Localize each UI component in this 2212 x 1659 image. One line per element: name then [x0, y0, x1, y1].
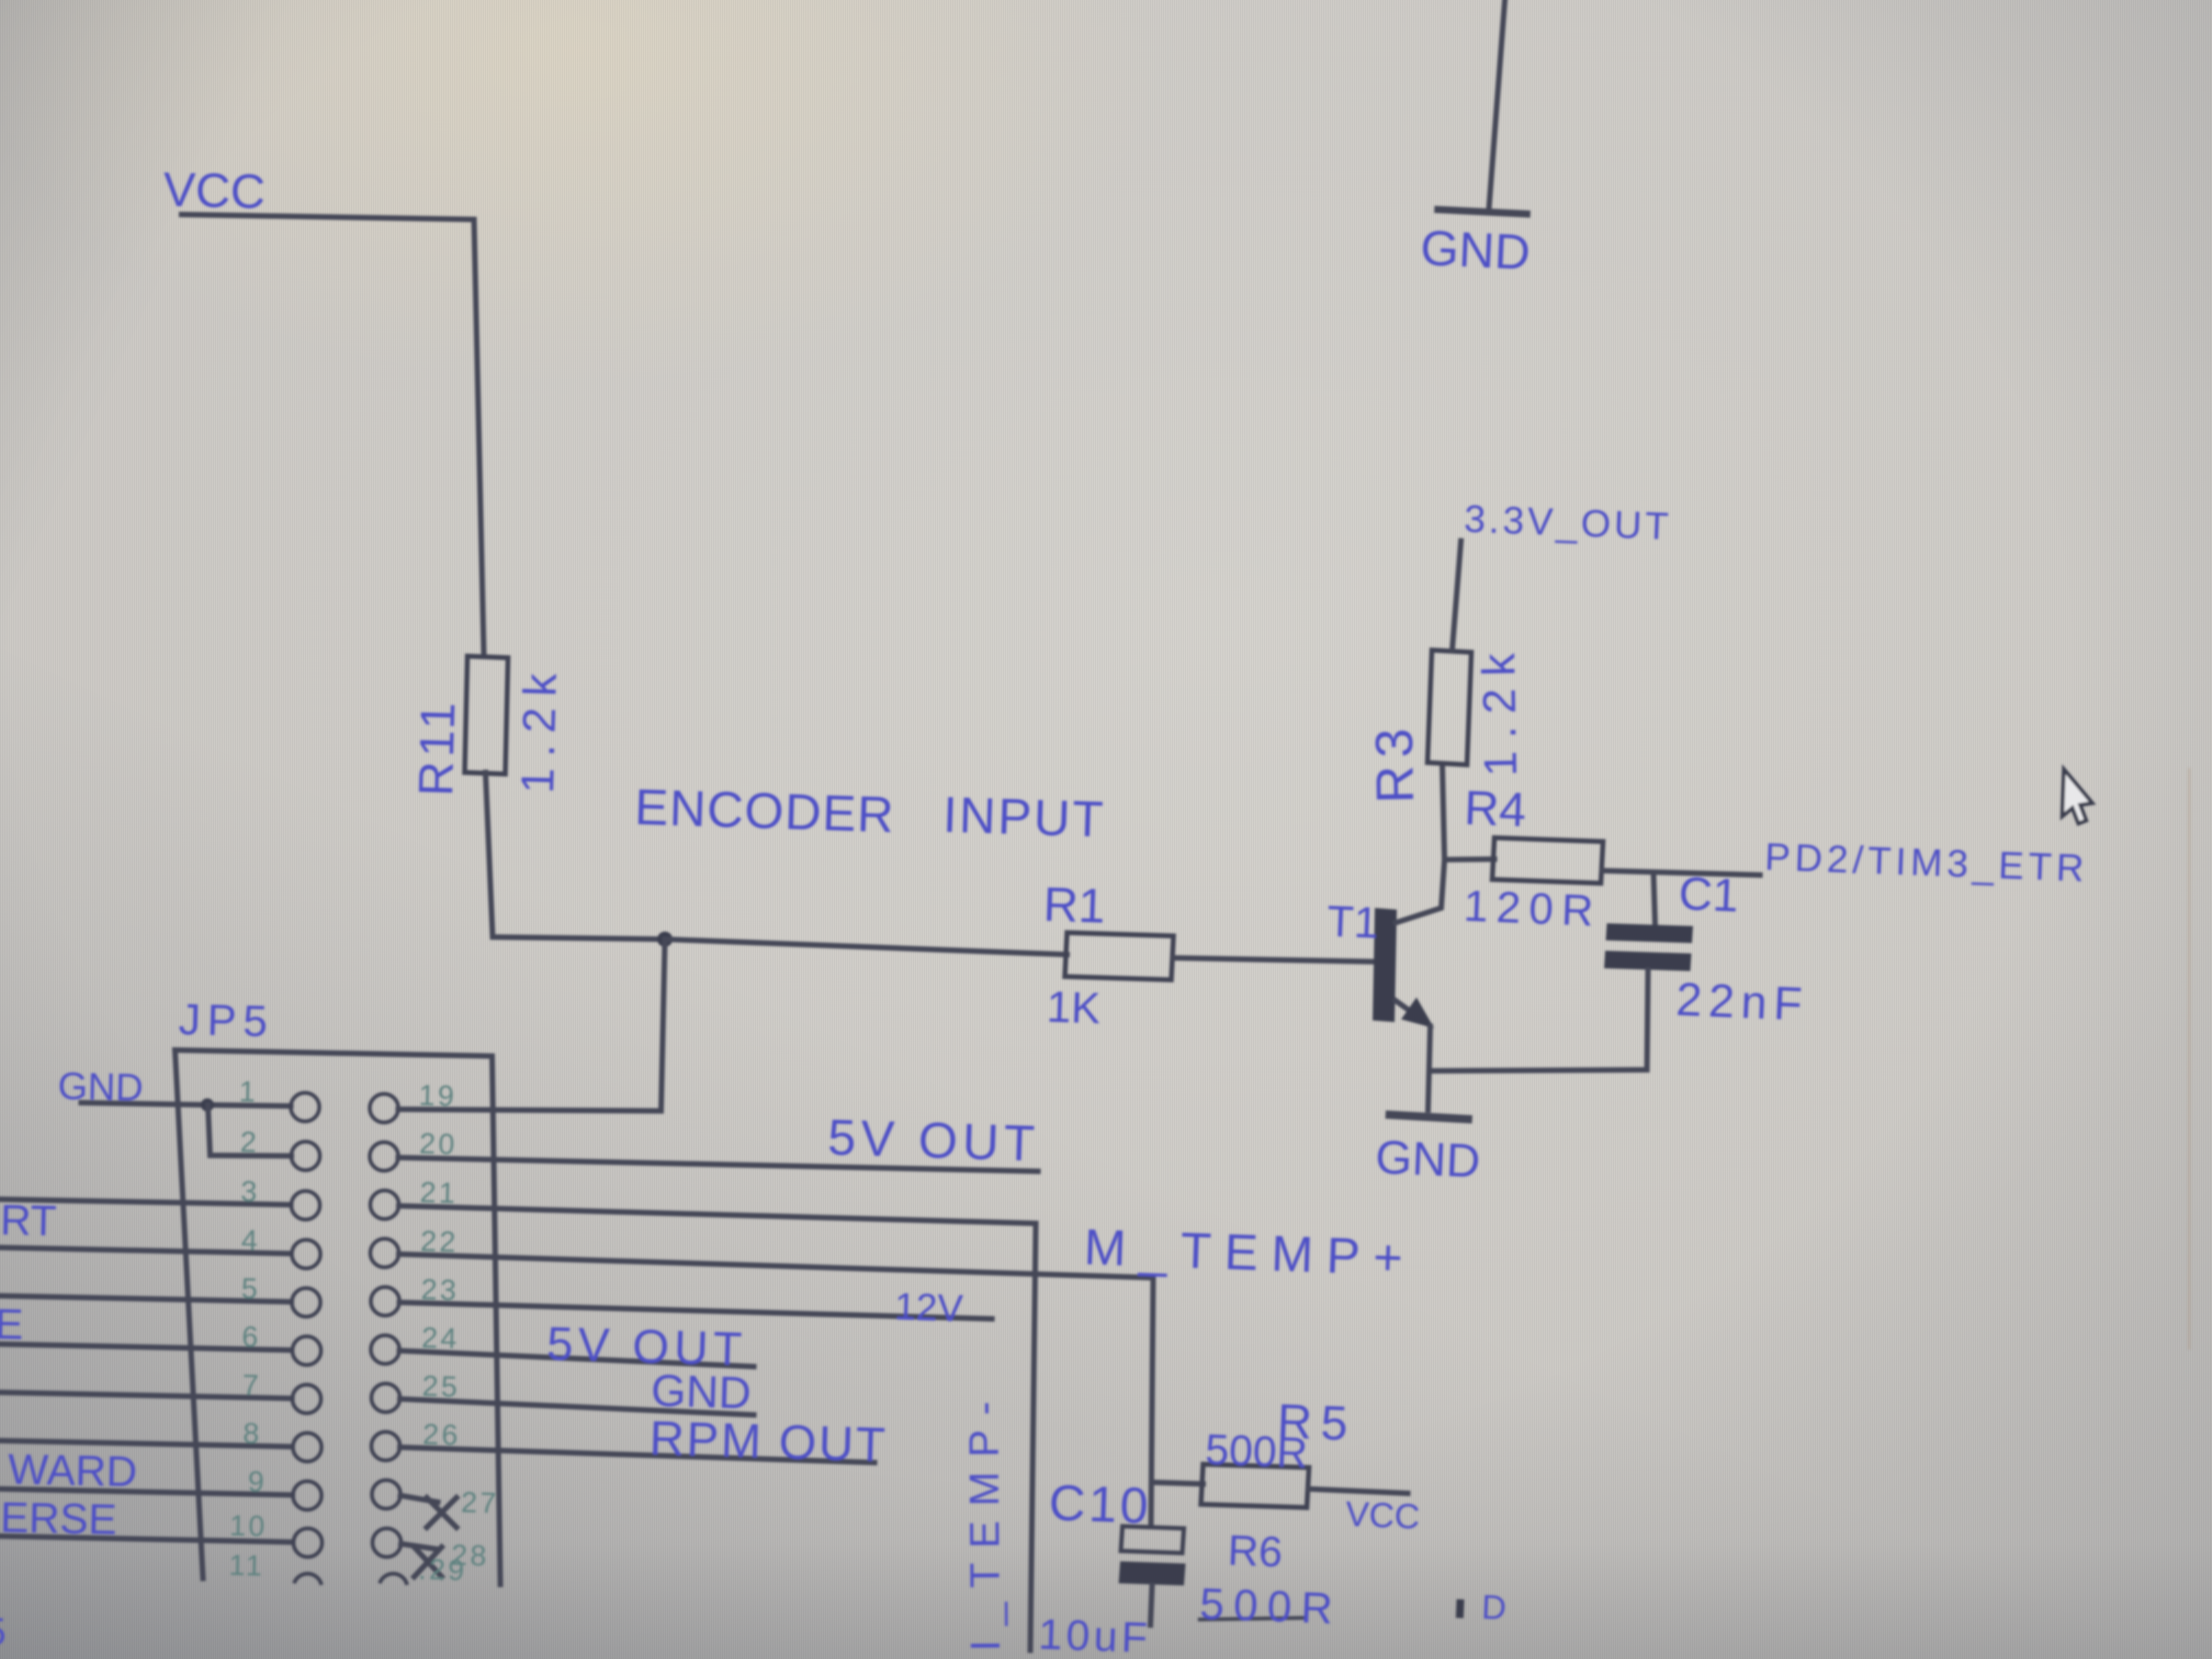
- svg-text:C10: C10: [1048, 1475, 1152, 1534]
- svg-text:RPM OUT: RPM OUT: [648, 1410, 888, 1472]
- svg-text:R4: R4: [1463, 780, 1527, 837]
- svg-text:VCC: VCC: [163, 162, 266, 219]
- svg-text:26: 26: [422, 1418, 461, 1452]
- svg-text:11: 11: [229, 1549, 265, 1582]
- svg-text:4: 4: [241, 1224, 261, 1257]
- svg-text:VCC: VCC: [1345, 1494, 1420, 1536]
- svg-text:9: 9: [247, 1465, 267, 1498]
- svg-text:6: 6: [241, 1321, 261, 1353]
- svg-text:R6: R6: [1227, 1526, 1283, 1576]
- svg-text:.29: .29: [418, 1553, 467, 1587]
- svg-text:M_TEMP+: M_TEMP+: [1083, 1219, 1417, 1286]
- svg-text:5: 5: [0, 1610, 6, 1653]
- svg-text:T1: T1: [1326, 896, 1379, 947]
- svg-text:23: 23: [421, 1273, 460, 1307]
- svg-text:5: 5: [241, 1272, 261, 1305]
- svg-text:GND: GND: [58, 1064, 144, 1109]
- svg-text:PD2/TIM3_ETR: PD2/TIM3_ETR: [1764, 835, 2089, 890]
- svg-text:INPUT: INPUT: [942, 787, 1106, 848]
- svg-text:WARD: WARD: [8, 1444, 138, 1496]
- svg-text:7: 7: [242, 1369, 262, 1402]
- svg-text:24: 24: [421, 1322, 460, 1355]
- svg-text:D: D: [1481, 1588, 1507, 1627]
- svg-text:25: 25: [422, 1370, 461, 1403]
- svg-text:3.3V_OUT: 3.3V_OUT: [1463, 497, 1672, 548]
- svg-text:8: 8: [242, 1417, 262, 1450]
- svg-text:R1: R1: [1042, 877, 1106, 933]
- svg-text:19: 19: [419, 1079, 458, 1113]
- svg-text:2: 2: [240, 1126, 259, 1159]
- svg-text:120R: 120R: [1463, 881, 1602, 935]
- svg-text:1.2k: 1.2k: [511, 662, 566, 794]
- svg-text:20: 20: [419, 1127, 458, 1161]
- svg-text:5V OUT: 5V OUT: [827, 1109, 1040, 1172]
- svg-text:R11: R11: [408, 697, 465, 797]
- svg-text:500R: 500R: [1204, 1425, 1308, 1477]
- svg-text:1K: 1K: [1046, 982, 1101, 1032]
- svg-text:500R: 500R: [1199, 1579, 1342, 1633]
- svg-text:1.2k: 1.2k: [1472, 641, 1526, 777]
- svg-text:C1: C1: [1678, 867, 1740, 922]
- svg-text:1: 1: [239, 1075, 258, 1108]
- svg-text:JP5: JP5: [178, 995, 275, 1046]
- svg-text:GND: GND: [1419, 221, 1531, 280]
- svg-text:21: 21: [420, 1176, 459, 1210]
- svg-text:RT: RT: [0, 1195, 57, 1245]
- svg-text:E: E: [0, 1300, 24, 1348]
- svg-text:R3: R3: [1364, 720, 1425, 804]
- svg-text:22nF: 22nF: [1675, 973, 1810, 1031]
- svg-text:22: 22: [420, 1225, 459, 1259]
- svg-text:ENCODER: ENCODER: [634, 779, 895, 843]
- svg-text:10uF: 10uF: [1037, 1610, 1152, 1659]
- svg-text:12V: 12V: [894, 1285, 964, 1330]
- svg-text:3: 3: [240, 1175, 260, 1208]
- svg-text:I_TEMP-: I_TEMP-: [961, 1387, 1009, 1651]
- svg-text:27: 27: [461, 1486, 500, 1520]
- svg-text:10: 10: [229, 1509, 268, 1543]
- svg-text:GND: GND: [1374, 1131, 1481, 1188]
- svg-text:ERSE: ERSE: [0, 1493, 117, 1543]
